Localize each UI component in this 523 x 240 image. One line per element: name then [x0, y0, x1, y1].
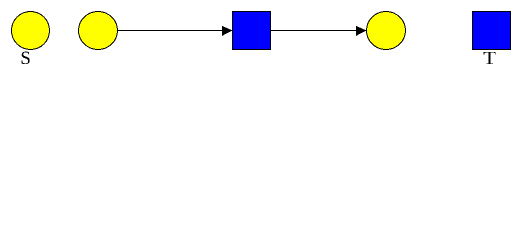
- node 3 (blue square): [233, 12, 271, 50]
- wire: edge from node 3 to node 4: [271, 30, 366, 31]
- wire: edge from node 2 to node 3: [118, 30, 232, 31]
- label T: [484, 52, 496, 64]
- node 4 (yellow circle): [367, 12, 406, 50]
- node S (yellow circle): [12, 12, 50, 50]
- label S: [22, 52, 30, 65]
- node T (blue square): [473, 12, 511, 50]
- arrowhead into node 4: [356, 26, 367, 36]
- arrowhead into node 3: [222, 26, 233, 36]
- node 2 (yellow circle): [79, 12, 118, 50]
